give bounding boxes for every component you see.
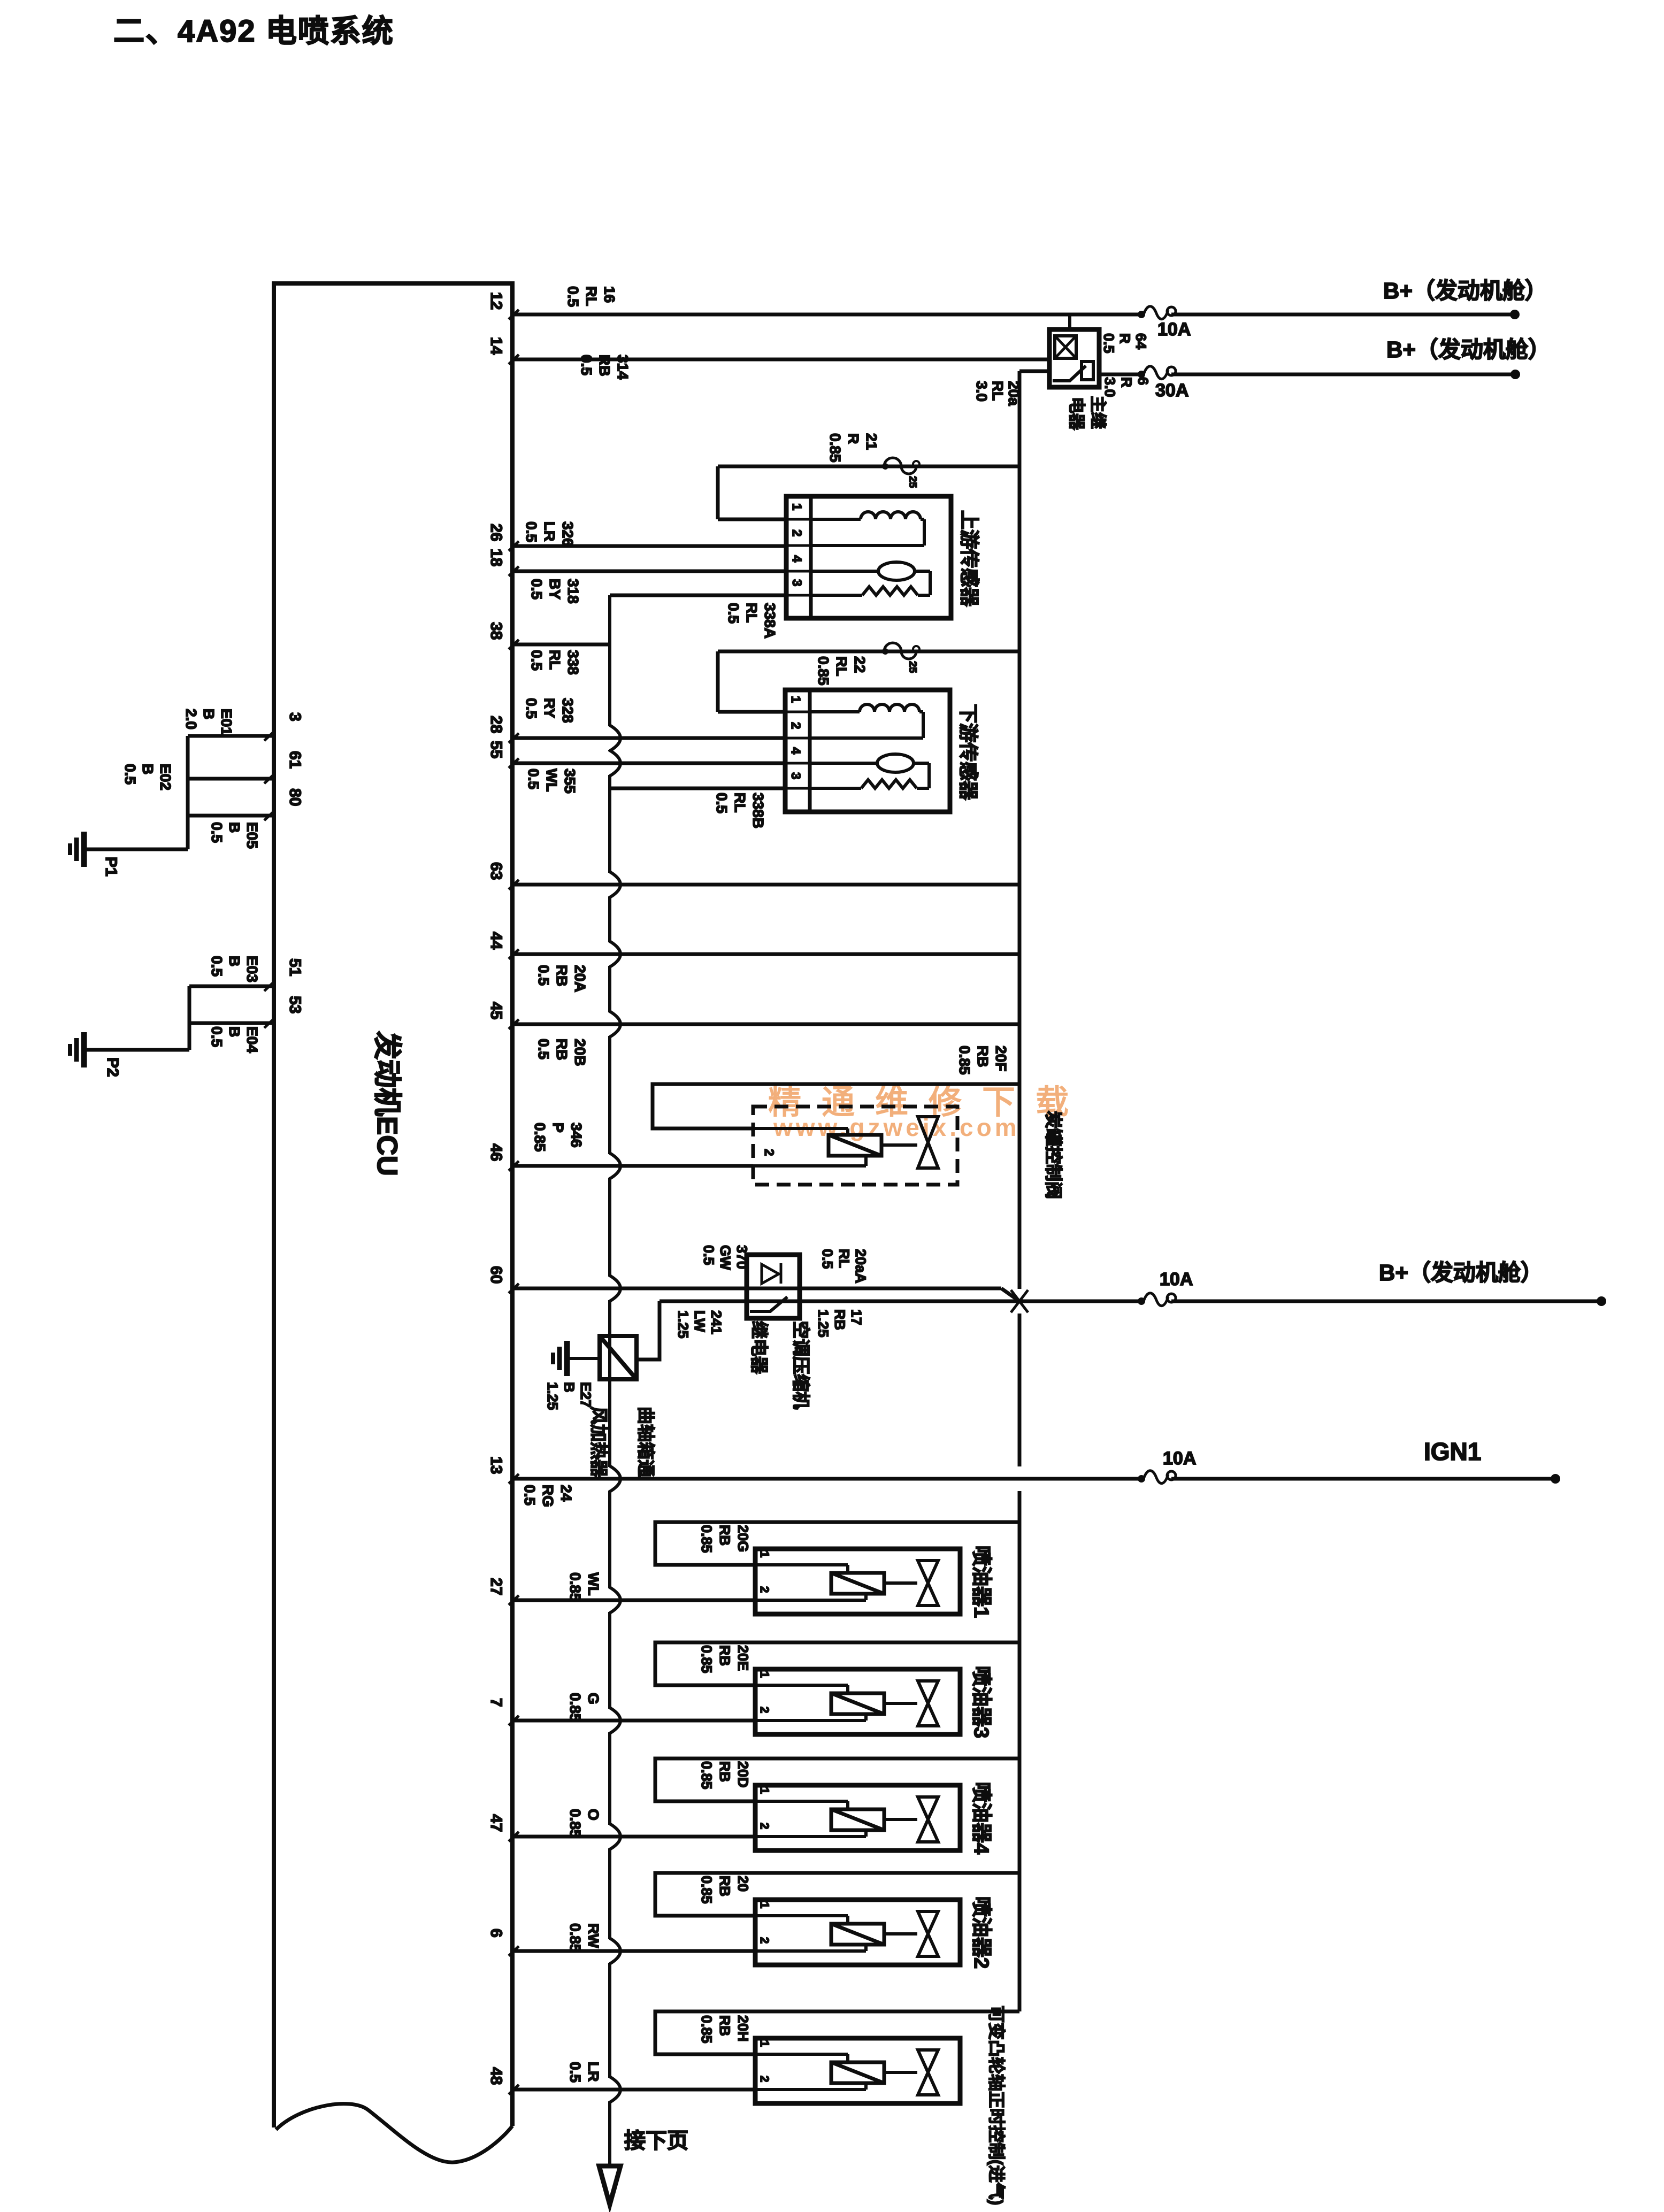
svg-text:IGN1: IGN1 — [1424, 1438, 1481, 1465]
svg-text:RL: RL — [990, 381, 1006, 401]
svg-text:二、4A92 电喷系统: 二、4A92 电喷系统 — [113, 14, 394, 49]
svg-text:WL: WL — [543, 769, 560, 792]
svg-text:RB: RB — [832, 1309, 848, 1330]
svg-text:338: 338 — [565, 650, 581, 675]
svg-text:28: 28 — [487, 716, 505, 733]
svg-text:2: 2 — [762, 1149, 776, 1156]
svg-text:RB: RB — [554, 1039, 570, 1060]
supply loop 20H RB 0.85 — [655, 2011, 1019, 2054]
svg-text:B+（发动机舱）: B+（发动机舱） — [1383, 278, 1547, 303]
svg-text:P1: P1 — [102, 857, 120, 877]
svg-text:下游传感器: 下游传感器 — [957, 704, 979, 801]
svg-text:0.85: 0.85 — [699, 1876, 715, 1904]
svg-text:20aA: 20aA — [853, 1249, 869, 1284]
svg-text:55: 55 — [487, 741, 505, 758]
svg-text:可变凸轮轴正时控制(进气): 可变凸轮轴正时控制(进气) — [987, 2006, 1006, 2205]
bus hop at y=1654 — [610, 872, 620, 897]
svg-text:346: 346 — [568, 1123, 585, 1148]
svg-text:48: 48 — [487, 2067, 505, 2085]
svg-text:0.5: 0.5 — [1101, 333, 1117, 354]
wire 21 R 0.85 heater upstream — [718, 465, 1019, 468]
svg-text:1: 1 — [758, 2040, 771, 2047]
injector 喷油器1 — [755, 1549, 960, 1614]
svg-text:1: 1 — [758, 1902, 771, 1908]
PCV heater 曲轴箱通风加热器 — [600, 1336, 637, 1379]
ground P2 — [70, 1032, 84, 1067]
svg-text:2: 2 — [758, 1707, 771, 1713]
wire pin3 to ground bus — [188, 734, 274, 738]
svg-text:25: 25 — [907, 661, 918, 673]
ground bus P2 — [188, 986, 191, 1050]
svg-text:风加热器: 风加热器 — [589, 1407, 609, 1478]
svg-text:电器: 电器 — [1067, 397, 1086, 431]
fuse 10A (B+ engine room rail 3) — [1138, 1293, 1176, 1306]
svg-text:喷油器4: 喷油器4 — [970, 1782, 992, 1854]
node B+ terminal 3 — [1597, 1296, 1606, 1306]
bus hop at y=1380 — [610, 725, 620, 751]
svg-text:RL: RL — [836, 1249, 852, 1268]
wire 24 RG 0.5 pin13 to IGN1 — [512, 1477, 1141, 1481]
svg-text:1: 1 — [758, 1551, 771, 1557]
svg-text:0.85: 0.85 — [956, 1046, 973, 1075]
svg-text:2.0: 2.0 — [183, 709, 200, 729]
wire O 0.85 ECU to 喷油器4 — [512, 1835, 755, 1839]
svg-text:14: 14 — [487, 337, 505, 355]
wire WL 0.85 ECU to 喷油器1 — [512, 1599, 755, 1602]
injector 喷油器4 — [755, 1785, 960, 1850]
bus hop at y=3648 — [610, 1938, 620, 1964]
svg-text:B+（发动机舱）: B+（发动机舱） — [1379, 1260, 1543, 1285]
svg-text:0.5: 0.5 — [209, 822, 225, 843]
wire 338 RL 0.5 pin38 — [512, 643, 610, 647]
svg-text:RL: RL — [732, 793, 748, 812]
svg-text:27: 27 — [487, 1578, 505, 1595]
svg-text:RG: RG — [540, 1485, 556, 1507]
svg-text:6: 6 — [487, 1929, 505, 1938]
svg-text:继电器: 继电器 — [749, 1321, 769, 1374]
svg-text:53: 53 — [286, 996, 304, 1013]
svg-text:2: 2 — [758, 1586, 771, 1593]
downstream oxygen sensor 下游传感器 — [785, 690, 950, 812]
svg-text:E01: E01 — [218, 709, 235, 735]
bus hop at y=3907 — [610, 2077, 620, 2102]
svg-text:B: B — [226, 956, 243, 966]
wire 16 RL 0.5 pin12 to B+ — [512, 313, 1141, 317]
svg-text:6: 6 — [1135, 377, 1151, 385]
svg-text:241: 241 — [708, 1310, 724, 1334]
svg-text:0.5: 0.5 — [714, 793, 730, 813]
injector 喷油器2 — [755, 1900, 960, 1965]
bus hop at y=3217 — [610, 1708, 620, 1733]
svg-text:RB: RB — [717, 2015, 733, 2036]
svg-text:20E: 20E — [735, 1645, 751, 1671]
svg-text:RW: RW — [585, 1923, 602, 1948]
wire pin61 — [188, 777, 274, 781]
svg-text:318: 318 — [565, 579, 581, 604]
sensor ground bus — [608, 595, 611, 726]
svg-text:45: 45 — [487, 1002, 505, 1019]
svg-text:0.5: 0.5 — [523, 698, 540, 719]
svg-text:1: 1 — [788, 696, 803, 703]
svg-text:RB: RB — [717, 1645, 733, 1666]
svg-text:B: B — [561, 1382, 577, 1393]
svg-text:20G: 20G — [735, 1525, 751, 1552]
svg-text:0.5: 0.5 — [535, 1039, 552, 1059]
svg-text:22: 22 — [852, 656, 868, 673]
svg-text:20D: 20D — [735, 1761, 751, 1788]
svg-text:3: 3 — [286, 712, 304, 721]
svg-text:P2: P2 — [104, 1057, 121, 1077]
canister purge valve 炭罐控制阀 — [753, 1107, 957, 1185]
canister valve supply loop 20F RB 0.85 — [653, 1084, 1019, 1128]
svg-text:0.5: 0.5 — [209, 956, 225, 977]
bus hop at y=2409 — [610, 1276, 620, 1301]
svg-text:接下页: 接下页 — [624, 2129, 688, 2153]
wire 326 LR 0.5 pin26 — [512, 544, 786, 548]
svg-text:20B: 20B — [572, 1039, 588, 1066]
svg-text:3.0: 3.0 — [1102, 377, 1118, 397]
svg-text:E02: E02 — [157, 764, 174, 790]
svg-text:P: P — [550, 1123, 566, 1133]
svg-text:1: 1 — [758, 1671, 771, 1678]
wire 370 GW 0.5 pin60 — [512, 1287, 1001, 1291]
svg-text:24: 24 — [558, 1485, 574, 1502]
svg-text:64: 64 — [1133, 333, 1149, 349]
wire 314 RB 0.5 pin14 to main relay — [512, 358, 1049, 362]
svg-text:0.85: 0.85 — [699, 1761, 715, 1789]
svg-text:2: 2 — [758, 1823, 771, 1829]
svg-text:30A: 30A — [1155, 380, 1188, 401]
wire pin51 — [189, 985, 274, 988]
svg-text:20: 20 — [735, 1876, 751, 1892]
wire RW 0.85 ECU to 喷油器2 — [512, 1949, 755, 1953]
svg-text:3.0: 3.0 — [973, 381, 990, 402]
svg-text:RL: RL — [743, 603, 760, 623]
svg-text:10A: 10A — [1163, 1448, 1196, 1469]
svg-text:炭罐控制阀: 炭罐控制阀 — [1044, 1111, 1063, 1199]
svg-text:61: 61 — [286, 751, 304, 769]
svg-text:4: 4 — [788, 747, 803, 755]
bus hop at y=1427 — [610, 750, 620, 776]
wire 338A RL 0.5 sensor ground — [610, 594, 786, 597]
svg-text:0.85: 0.85 — [567, 1693, 584, 1722]
svg-text:B: B — [201, 709, 217, 719]
svg-text:0.5: 0.5 — [819, 1249, 835, 1269]
svg-text:18: 18 — [487, 549, 505, 566]
fuse 10A (B+ engine room rail 1) — [1138, 306, 1176, 319]
svg-text:0.5: 0.5 — [122, 764, 139, 785]
svg-text:10A: 10A — [1157, 319, 1191, 340]
svg-text:1: 1 — [789, 503, 804, 510]
ECU box 发动机ECU — [274, 283, 512, 2127]
power bus from main relay — [1018, 371, 1022, 1289]
svg-text:0.5: 0.5 — [522, 1485, 538, 1506]
svg-text:51: 51 — [286, 958, 304, 976]
svg-text:O: O — [585, 1809, 602, 1821]
svg-text:喷油器2: 喷油器2 — [970, 1896, 992, 1969]
bus hop at y=3434 — [610, 1824, 620, 1849]
svg-text:3: 3 — [789, 579, 804, 586]
svg-text:R: R — [845, 433, 862, 444]
fuse 10A IGN1 — [1138, 1471, 1176, 1484]
svg-text:G: G — [585, 1693, 602, 1704]
wire pin80 — [188, 814, 274, 818]
svg-text:RL: RL — [583, 286, 600, 306]
wire pin63 to bus — [512, 883, 1019, 887]
svg-text:2: 2 — [758, 2076, 771, 2082]
svg-text:LR: LR — [541, 521, 558, 541]
svg-text:0.85: 0.85 — [567, 1809, 584, 1838]
svg-text:R: R — [1118, 377, 1134, 388]
svg-text:0.85: 0.85 — [699, 2015, 715, 2044]
svg-text:328: 328 — [559, 698, 576, 723]
svg-text:RB: RB — [717, 1876, 733, 1896]
svg-text:RB: RB — [975, 1046, 991, 1067]
svg-text:38: 38 — [487, 622, 505, 640]
svg-text:WL: WL — [585, 1572, 602, 1596]
svg-text:63: 63 — [487, 862, 505, 880]
svg-text:空调压缩机: 空调压缩机 — [791, 1321, 811, 1409]
supply loop 20E RB 0.85 — [655, 1642, 1019, 1685]
svg-text:20H: 20H — [735, 2015, 751, 2042]
node IGN1 — [1551, 1474, 1560, 1484]
svg-text:0.5: 0.5 — [209, 1026, 225, 1047]
ground E27 — [553, 1341, 567, 1376]
bus hop at y=1784 — [610, 941, 620, 967]
wire 338B RL 0.5 sensor ground 2 — [610, 787, 785, 790]
wire 355 WL 0.5 pin55 — [512, 762, 785, 765]
svg-text:20A: 20A — [572, 965, 588, 992]
svg-text:RB: RB — [717, 1525, 733, 1546]
svg-text:1.25: 1.25 — [545, 1382, 561, 1410]
wire 20a RL 3.0 relay output — [1019, 370, 1049, 373]
bus hop at y=2765 — [610, 1466, 620, 1492]
bus hop at y=1915 — [610, 1011, 620, 1037]
svg-text:E05: E05 — [244, 822, 260, 849]
ground P1 — [70, 832, 84, 867]
svg-text:RY: RY — [541, 698, 558, 718]
wire 17 RB 1.25 B+ feed — [660, 1300, 1141, 1303]
svg-text:RB: RB — [554, 965, 570, 986]
svg-text:0.85: 0.85 — [827, 433, 843, 463]
svg-text:80: 80 — [286, 788, 304, 806]
svg-text:7: 7 — [487, 1698, 505, 1707]
svg-text:发动机ECU: 发动机ECU — [371, 1031, 403, 1176]
svg-text:2: 2 — [758, 1937, 771, 1944]
fuse 30A — [1138, 366, 1176, 379]
svg-text:E27: E27 — [578, 1382, 594, 1408]
svg-text:GW: GW — [717, 1245, 733, 1270]
bus hop at y=2180 — [610, 1153, 620, 1179]
svg-text:喷油器3: 喷油器3 — [970, 1666, 992, 1738]
svg-text:0.5: 0.5 — [535, 965, 552, 986]
wire 20A RB 0.5 pin44 — [512, 953, 1019, 956]
inline connector on heater wire 2 — [882, 643, 919, 659]
svg-text:13: 13 — [487, 1456, 505, 1474]
svg-text:44: 44 — [487, 932, 505, 950]
svg-text:4: 4 — [789, 555, 804, 563]
svg-text:B: B — [140, 764, 156, 774]
svg-text:47: 47 — [487, 1814, 505, 1832]
injector 喷油器3 — [755, 1669, 960, 1734]
svg-text:1.25: 1.25 — [815, 1309, 831, 1338]
svg-text:0.85: 0.85 — [567, 1572, 584, 1602]
svg-text:B: B — [226, 822, 243, 833]
main relay top stub from B+ wire — [1068, 314, 1071, 329]
svg-text:1: 1 — [758, 1787, 771, 1794]
svg-text:0.5: 0.5 — [528, 650, 545, 671]
svg-text:1.25: 1.25 — [675, 1310, 691, 1339]
wire 22 RL 0.85 heater downstream — [718, 650, 1019, 654]
wire 241 LW 1.25 to heater — [637, 1301, 660, 1360]
svg-text:E04: E04 — [244, 1026, 260, 1053]
svg-text:60: 60 — [487, 1266, 505, 1284]
wire 6 R 3.0 relay to 30A fuse — [1099, 373, 1141, 377]
svg-text:0.5: 0.5 — [725, 603, 742, 624]
svg-text:0.5: 0.5 — [578, 355, 595, 375]
svg-text:12: 12 — [487, 292, 505, 310]
svg-text:0.5: 0.5 — [528, 579, 545, 600]
to next page arrow 接下页 — [599, 2166, 620, 2205]
ground bus P1 — [186, 736, 190, 849]
wire 346 P 0.85 pin46 — [512, 1164, 753, 1168]
svg-text:E03: E03 — [244, 956, 260, 982]
svg-text:355: 355 — [562, 769, 578, 794]
svg-text:0.85: 0.85 — [532, 1123, 548, 1152]
svg-text:0.85: 0.85 — [567, 1923, 584, 1953]
svg-text:LW: LW — [692, 1310, 708, 1332]
svg-text:0.5: 0.5 — [701, 1245, 717, 1265]
junction flares at power bus — [1011, 1290, 1019, 1301]
upstream oxygen sensor 上游传感器 — [786, 496, 951, 618]
svg-text:338A: 338A — [762, 603, 778, 639]
svg-text:0.85: 0.85 — [699, 1645, 715, 1673]
svg-text:RB: RB — [596, 355, 613, 376]
svg-text:上游传感器: 上游传感器 — [958, 510, 980, 607]
watermark — [768, 1084, 1089, 1141]
wire LR 0.5 pin48 — [512, 2088, 755, 2092]
svg-text:326: 326 — [559, 521, 576, 547]
node B+ terminal 2 — [1510, 370, 1520, 379]
svg-text:0.5: 0.5 — [525, 769, 542, 789]
svg-text:R: R — [1117, 333, 1133, 344]
supply loop 20 RB 0.85 — [655, 1873, 1019, 1916]
svg-text:RL: RL — [833, 656, 850, 676]
svg-text:RB: RB — [717, 1761, 733, 1782]
svg-text:喷油器1: 喷油器1 — [970, 1546, 992, 1618]
svg-text:LR: LR — [585, 2062, 602, 2082]
wire 318 BY 0.5 pin18 — [512, 570, 786, 573]
node B+ terminal 1 — [1510, 310, 1520, 319]
svg-text:0.5: 0.5 — [523, 521, 540, 542]
wire 328 RY 0.5 pin28 — [512, 736, 785, 740]
bus hop at y=2992 — [610, 1587, 620, 1613]
wire 20B RB 0.5 pin45 — [512, 1023, 1019, 1026]
svg-text:RL: RL — [547, 650, 563, 670]
A/C compressor relay 空调压缩机继电器 — [747, 1255, 800, 1318]
svg-text:B+（发动机舱）: B+（发动机舱） — [1386, 337, 1551, 362]
svg-text:17: 17 — [848, 1309, 864, 1325]
svg-text:10A: 10A — [1160, 1269, 1193, 1289]
VVT valve 可变凸轮轴正时控制(进气) — [755, 2038, 960, 2103]
supply loop 20D RB 0.85 — [655, 1758, 1019, 1801]
svg-text:0.5: 0.5 — [565, 286, 581, 307]
svg-text:曲轴箱通: 曲轴箱通 — [636, 1407, 656, 1477]
svg-text:21: 21 — [863, 433, 880, 450]
supply loop 20G RB 0.85 — [655, 1522, 1019, 1565]
svg-text:2: 2 — [789, 529, 804, 536]
inline connector on heater wire — [882, 458, 919, 474]
svg-text:3: 3 — [788, 772, 803, 779]
svg-text:26: 26 — [487, 524, 505, 541]
svg-text:16: 16 — [601, 286, 618, 303]
svg-text:BY: BY — [547, 579, 563, 600]
main relay 主继电器 — [1049, 329, 1099, 387]
svg-text:20F: 20F — [993, 1046, 1009, 1071]
svg-text:338B: 338B — [750, 793, 766, 828]
svg-text:主继: 主继 — [1088, 396, 1107, 429]
svg-text:25: 25 — [907, 476, 918, 488]
svg-text:314: 314 — [615, 355, 631, 380]
svg-text:2: 2 — [788, 722, 803, 729]
svg-text:46: 46 — [487, 1143, 505, 1161]
wire E27 ground stub — [570, 1357, 600, 1360]
svg-text:B: B — [226, 1026, 243, 1037]
svg-text:0.85: 0.85 — [815, 656, 832, 686]
wire pin53 — [189, 1021, 274, 1025]
svg-text:0.5: 0.5 — [567, 2062, 584, 2083]
svg-text:0.85: 0.85 — [699, 1525, 715, 1553]
wire G 0.85 ECU to 喷油器3 — [512, 1719, 755, 1723]
